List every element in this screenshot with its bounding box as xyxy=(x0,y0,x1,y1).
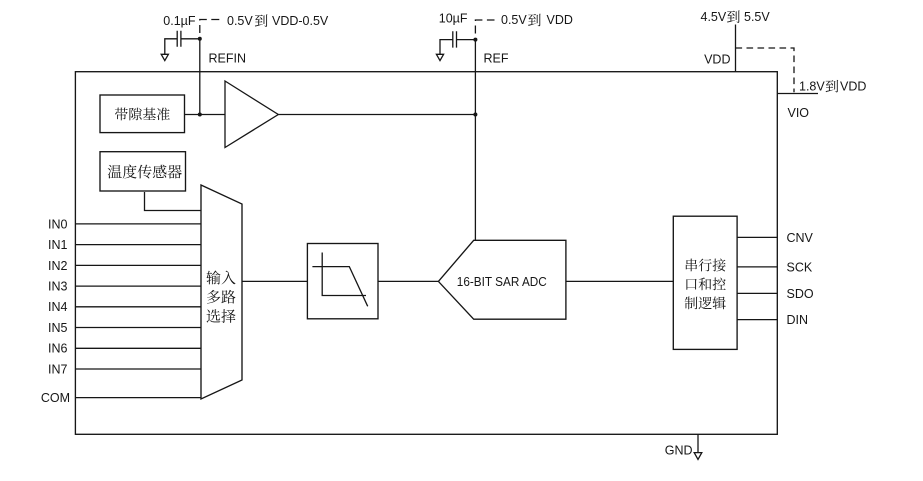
svg-text:VDD: VDD xyxy=(840,79,866,93)
block: serial interface and control logic (串行接口和控制逻辑) xyxy=(673,216,737,349)
svg-text:VDD: VDD xyxy=(704,52,730,66)
svg-text:5.5V: 5.5V xyxy=(744,10,770,24)
wire input pin IN0 xyxy=(75,223,201,225)
wire input pin COM xyxy=(75,397,201,399)
wire buffer output to REF node xyxy=(278,114,475,116)
wire capacitor C2 right lead xyxy=(457,39,476,41)
block: 16-BIT SAR ADC (pentagon) xyxy=(438,240,566,319)
wire pin SDO xyxy=(737,292,777,294)
block label serial interface line2 xyxy=(686,279,696,290)
ground symbol GND xyxy=(694,453,702,460)
dashed leader (REF allowed range) xyxy=(475,20,494,34)
svg-text:IN4: IN4 xyxy=(48,300,68,314)
wire capacitor C1 left lead xyxy=(165,39,177,55)
svg-text:SDO: SDO xyxy=(787,287,814,301)
op-amp buffer A1 (reference buffer triangle) xyxy=(225,81,278,148)
ground symbol (C1) xyxy=(161,54,168,60)
wire pin SCK xyxy=(737,266,777,268)
block label input mux line2 xyxy=(207,290,220,304)
block label input mux line1 xyxy=(206,270,220,284)
wire input pin IN2 xyxy=(75,264,201,266)
ground symbol (C2) xyxy=(436,54,443,60)
svg-text:IN2: IN2 xyxy=(48,259,68,273)
wire input pin IN1 xyxy=(75,244,201,246)
svg-text:CNV: CNV xyxy=(787,231,814,245)
dashed leader VDD to VIO xyxy=(736,48,795,92)
wire REF vertical (REF pin down to ADC) xyxy=(474,40,476,241)
svg-text:1.8V: 1.8V xyxy=(799,79,825,93)
svg-text:REF: REF xyxy=(484,52,509,66)
svg-text:IN0: IN0 xyxy=(48,217,68,231)
block: temperature sensor (温度传感器) xyxy=(100,152,186,191)
wire pin CNV xyxy=(737,236,777,238)
svg-text:REFIN: REFIN xyxy=(209,51,247,65)
wire pin DIN xyxy=(737,319,777,321)
block: bandgap reference (带隙基准) xyxy=(100,95,185,133)
svg-text:IN1: IN1 xyxy=(48,238,68,252)
svg-text:0.5V: 0.5V xyxy=(227,14,253,28)
svg-text:10µF: 10µF xyxy=(439,12,468,26)
wire input pin IN3 xyxy=(75,285,201,287)
svg-text:0.5V: 0.5V xyxy=(501,13,527,27)
node junction REF / buffer output xyxy=(473,113,477,117)
wire temperature sensor to mux xyxy=(145,192,202,211)
svg-text:VIO: VIO xyxy=(788,106,810,120)
svg-text:DIN: DIN xyxy=(787,313,809,327)
wire filter output to ADC xyxy=(378,280,438,282)
capacitor C2 10uF plates xyxy=(453,31,457,47)
wire VDD pin xyxy=(735,25,737,72)
svg-text:0.1µF: 0.1µF xyxy=(163,14,196,28)
svg-text:COM: COM xyxy=(41,391,70,405)
wire input pin IN4 xyxy=(75,306,201,308)
LPF symbol response curve xyxy=(312,267,367,307)
wire ADC output to serial interface xyxy=(566,280,673,282)
node junction REFIN / bandgap wire xyxy=(198,113,202,117)
svg-text:IN3: IN3 xyxy=(48,280,68,294)
block: LPF / track-and-hold symbol box xyxy=(307,244,378,319)
node junction REFIN / C1 xyxy=(198,37,202,41)
block: input multiplexer (输入多路选择) xyxy=(201,185,242,399)
capacitor C1 0.1uF plates xyxy=(177,31,181,47)
svg-text:IN6: IN6 xyxy=(48,342,68,356)
wire bandgap output to buffer input xyxy=(185,114,226,116)
wire GND pin xyxy=(697,434,699,452)
dashed leader (REFIN allowed range) xyxy=(200,20,220,34)
IC body U1 (16-bit SAR ADC chip outline) xyxy=(75,72,777,435)
wire REFIN vertical (REFIN pin into chip) xyxy=(199,39,201,115)
LPF symbol axes xyxy=(322,253,366,296)
block label temperature sensor xyxy=(108,165,122,179)
wire input pin IN5 xyxy=(75,327,201,329)
node junction REF / C2 xyxy=(473,38,477,42)
svg-text:4.5V: 4.5V xyxy=(701,10,727,24)
block label serial interface line1 xyxy=(686,259,697,272)
block label serial interface line3 xyxy=(685,297,698,310)
svg-text:GND: GND xyxy=(665,444,693,458)
block label bandgap reference xyxy=(115,108,128,121)
svg-text:16-BIT SAR ADC: 16-BIT SAR ADC xyxy=(457,275,547,289)
svg-text:SCK: SCK xyxy=(787,260,813,274)
wire capacitor C2 left lead xyxy=(440,40,453,55)
svg-text:IN7: IN7 xyxy=(48,362,68,376)
wire VIO pin stub xyxy=(777,93,818,95)
wire input pin IN6 xyxy=(75,347,201,349)
svg-text:VDD-0.5V: VDD-0.5V xyxy=(272,14,329,28)
wire input pin IN7 xyxy=(75,368,201,370)
svg-text:IN5: IN5 xyxy=(48,321,68,335)
block label input mux line3 xyxy=(207,309,221,322)
wire capacitor C1 right lead xyxy=(181,38,200,40)
svg-text:VDD: VDD xyxy=(547,13,573,27)
wire mux output to track/hold xyxy=(242,280,307,282)
